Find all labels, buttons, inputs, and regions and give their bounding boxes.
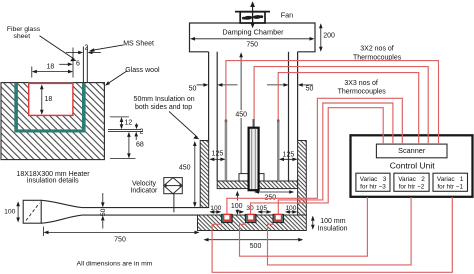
dimension 750 inside chamber <box>190 37 315 48</box>
specimen pedestal <box>239 174 264 181</box>
svg-text:Scanner: Scanner <box>398 146 426 155</box>
svg-text:for htr −2: for htr −2 <box>399 183 425 190</box>
svg-text:50: 50 <box>189 85 197 92</box>
label: 50mm Insulation on both sides and top with leader <box>134 96 200 139</box>
svg-text:450: 450 <box>179 164 191 171</box>
svg-text:12: 12 <box>125 119 133 126</box>
inlet duct bottom line <box>82 214 198 216</box>
label: MS Sheet with leader <box>89 40 154 51</box>
thermocouple wire TC-E (bottom heater3 to scanner) <box>278 103 393 214</box>
svg-text:3X2 nos of: 3X2 nos of <box>360 45 394 52</box>
dimension 100mm insulation thickness <box>311 216 348 233</box>
dimension 50 left wall <box>189 83 238 92</box>
svg-text:100: 100 <box>231 203 243 210</box>
caption: 18X18X300 mm Heater insulation details <box>16 171 90 185</box>
fiber glass sheet bottom strip (teal) <box>14 129 85 132</box>
dimension 100 (wall to heater1) <box>209 205 221 214</box>
glass wool cavity hatch kept, white zone under heater <box>29 83 74 116</box>
dimension 6 arrow <box>59 60 80 67</box>
note: All dimensions are in mm <box>77 261 153 268</box>
svg-text:for htr −1: for htr −1 <box>437 183 463 190</box>
MS sheet side extension double lines <box>108 129 143 131</box>
fiber glass sheet left strip (teal) <box>14 83 18 129</box>
thermocouple wire TC-F (bottom heater2 to scanner) <box>251 108 384 215</box>
label Control Unit <box>390 160 436 170</box>
dimension 100 (heater3 to wall) <box>285 205 297 214</box>
svg-text:3X3 nos of: 3X3 nos of <box>344 80 378 87</box>
dimension 18 vertical inside heater <box>40 84 52 115</box>
duct inner-right wall line <box>288 52 290 181</box>
variac 1 box <box>433 173 468 191</box>
svg-text:50mm Insulation on: 50mm Insulation on <box>134 96 195 103</box>
dimension 250 <box>254 190 294 201</box>
svg-text:Variac 3: Variac 3 <box>360 176 387 183</box>
dimension 2 (MS sheet thickness) <box>66 45 101 55</box>
central specimen heater <box>249 128 259 191</box>
svg-text:insulation details: insulation details <box>27 177 79 184</box>
bell mouth nozzle <box>23 200 82 223</box>
svg-text:450: 450 <box>235 112 247 119</box>
left chamber wall (hatched, 50mm insulation) <box>200 141 209 208</box>
svg-text:18: 18 <box>47 63 55 70</box>
label 3X2 nos of Thermocouples <box>353 45 402 61</box>
dimension 125 right <box>279 152 297 161</box>
svg-text:100: 100 <box>4 209 16 216</box>
heater insulation detail block (hatched) <box>1 83 104 160</box>
scanner box <box>376 144 447 158</box>
thermocouple probe rod right <box>277 119 280 181</box>
label Velocity Indicator <box>130 181 158 195</box>
duct outer-left wall line <box>208 52 210 141</box>
svg-text:500: 500 <box>250 243 262 250</box>
fan <box>235 1 270 28</box>
svg-text:200: 200 <box>323 33 335 40</box>
specimen plate (hatched) <box>217 181 297 189</box>
thermocouple wire TC-B (center specimen to scanner) <box>254 67 428 144</box>
dimension 450 duct interior <box>235 52 247 181</box>
svg-text:50: 50 <box>306 86 314 93</box>
svg-text:6: 6 <box>76 60 80 67</box>
svg-text:750: 750 <box>246 41 258 48</box>
svg-text:2: 2 <box>85 45 89 52</box>
svg-text:Indicator: Indicator <box>130 187 158 194</box>
svg-text:750: 750 <box>114 237 126 244</box>
label: Fiber glass sheet with leader <box>7 26 77 62</box>
dimension 750 inlet duct <box>44 227 200 244</box>
svg-text:Variac 1: Variac 1 <box>437 176 464 183</box>
velocity indicator probe line <box>173 194 175 213</box>
thermocouple wire TC-D (bottom heater1 to scanner) <box>227 98 402 214</box>
MS sheet bars above block <box>83 47 87 83</box>
damping chamber outline <box>190 23 316 52</box>
svg-text:50: 50 <box>100 208 107 216</box>
svg-text:2: 2 <box>140 128 144 135</box>
svg-text:both sides and top: both sides and top <box>135 104 192 111</box>
inlet duct top line <box>82 207 209 209</box>
power wire heater3 to variac2 <box>268 197 412 265</box>
dimension 12 (right of block) <box>110 117 132 129</box>
velocity indicator symbol <box>164 178 183 194</box>
heater cavity red rectangle <box>29 83 73 115</box>
label Fan <box>281 11 293 20</box>
dimension 50 duct height (rotated label) <box>100 193 107 229</box>
svg-text:sheet: sheet <box>13 33 30 40</box>
variac 2 box <box>394 173 429 191</box>
bottom heater 2 assembly <box>245 214 256 222</box>
power wire heater1 to variac1 <box>212 197 452 272</box>
power wire heater2 to variac3 <box>240 197 368 256</box>
dimension 125 left <box>209 151 225 162</box>
fiber glass sheet right strip (teal) <box>82 83 86 129</box>
svg-text:68: 68 <box>136 141 144 148</box>
dimension 2 (sheet side) <box>134 123 143 140</box>
specimen top rod <box>253 119 255 128</box>
duct outer-right wall line <box>297 52 299 141</box>
dimension 18 horizontal above heater <box>32 48 73 78</box>
svg-text:Thermocouples: Thermocouples <box>338 88 387 95</box>
thermocouple wire TC-A (left duct probe to scanner) <box>226 61 439 144</box>
thermocouple wire TC-C (right duct probe to scanner) <box>278 73 419 144</box>
svg-text:Fan: Fan <box>281 11 293 20</box>
dimension 100 plate-to-slab <box>231 191 243 215</box>
svg-text:18: 18 <box>45 96 53 103</box>
dimension 200 chamber height <box>319 23 335 52</box>
svg-text:Damping Chamber: Damping Chamber <box>222 28 284 37</box>
thermocouple probe rod left <box>225 119 228 181</box>
svg-text:Glass wool: Glass wool <box>125 67 160 74</box>
label: Glass wool with leader <box>105 67 160 86</box>
svg-text:100: 100 <box>285 205 296 212</box>
dimension 450 left chamber height <box>179 141 197 207</box>
dimension 105 (heater2 to heater3) <box>256 205 272 214</box>
variac 3 box <box>356 173 390 191</box>
svg-text:100 mm: 100 mm <box>320 218 345 225</box>
svg-text:Control Unit: Control Unit <box>390 160 436 170</box>
svg-text:for htr −3: for htr −3 <box>360 183 386 190</box>
svg-text:125: 125 <box>212 151 224 158</box>
bottom heater 3 assembly <box>273 214 284 222</box>
dimension 50 right wall <box>267 83 313 92</box>
dimension 30 (heater2 width) <box>239 205 254 214</box>
right chamber wall (hatched) <box>298 141 307 216</box>
base slab 100mm insulation (hatched) <box>198 215 307 231</box>
svg-text:MS Sheet: MS Sheet <box>123 40 154 47</box>
dimension 100 nozzle height <box>4 201 20 222</box>
label 3X3 nos of Thermocouples <box>338 80 387 96</box>
control unit box <box>351 135 473 197</box>
bottom heater 1 assembly <box>222 214 233 222</box>
svg-text:Insulation: Insulation <box>318 226 348 233</box>
svg-text:Variac 2: Variac 2 <box>398 176 425 183</box>
svg-text:Fiber glass: Fiber glass <box>7 26 41 33</box>
dimension 500 base <box>204 238 304 250</box>
duct inner-left wall line <box>216 52 218 181</box>
dimension 68 <box>110 132 144 159</box>
svg-text:All dimensions are in mm: All dimensions are in mm <box>77 261 153 268</box>
